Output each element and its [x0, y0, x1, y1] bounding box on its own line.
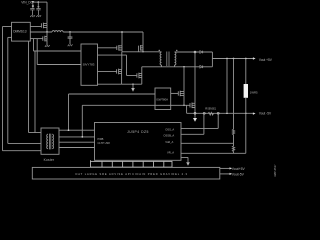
- wire -5V rail: [187, 112, 253, 114]
- wire sense tap vertical: [34, 51, 36, 133]
- wire U2 ground pin: [98, 83, 122, 85]
- wire bridge left leg to primary: [122, 51, 162, 53]
- terminal strip below U4: [91, 160, 173, 167]
- wire left bus 1 to T2: [3, 150, 42, 152]
- junction switch node: [46, 31, 48, 33]
- wire U2 pin2 to QD gate: [98, 55, 137, 75]
- wire VIN horizontal: [34, 1, 48, 3]
- wire T2 to U4 pin3: [59, 141, 95, 143]
- phase dot primary: [159, 50, 160, 51]
- label out plus: [232, 167, 246, 171]
- label T2 Koster: [44, 158, 55, 162]
- capacitor C1: [30, 9, 34, 16]
- IC U2 SIVY783: [81, 44, 98, 85]
- junction rail1 b: [233, 58, 235, 60]
- node VIN_DC label: [21, 0, 33, 4]
- resistor R divider 2: [232, 146, 234, 152]
- wire T2 to U4 pin1: [59, 129, 95, 131]
- wire U3 pin2 to Q6 gate: [155, 104, 190, 106]
- wire +5V rail: [212, 58, 253, 60]
- junction rail2 b: [226, 112, 228, 114]
- ground C1: [30, 15, 35, 17]
- wire QC drain up: [121, 52, 123, 70]
- wire left bus 2 vertical: [7, 37, 9, 143]
- wire load branch lower: [245, 98, 247, 154]
- wire rail2 gnd stub: [194, 114, 196, 118]
- label -5V: [259, 112, 272, 116]
- wire bus center stub: [132, 84, 134, 88]
- arrow -5V: [253, 113, 256, 115]
- ground C2: [36, 15, 41, 17]
- svg-text:Vout +5V: Vout +5V: [259, 58, 273, 62]
- transformer T2 core: [50, 134, 51, 150]
- transformer T1 core: [167, 52, 169, 67]
- phase dot secondary: [176, 50, 177, 51]
- resistor R divider 1: [232, 129, 234, 135]
- wire gnd net U2 to U3 pin1: [69, 93, 156, 95]
- junction rail2 d: [203, 112, 205, 114]
- wire U3 pin2 vertical: [81, 105, 83, 137]
- svg-text:VIN_DC: VIN_DC: [21, 0, 33, 4]
- label out minus: [232, 173, 245, 177]
- wire pinA vertical: [217, 113, 219, 128]
- transformer T2 module box: [41, 128, 59, 154]
- svg-text:JU5P4 DZ5: JU5P4 DZ5: [127, 130, 149, 134]
- junction rail2 c: [245, 112, 247, 114]
- junction Q5 source: [183, 104, 185, 106]
- label R load: [250, 91, 258, 95]
- wire QA source down: [121, 50, 123, 52]
- wire Q5 drain up: [183, 67, 185, 92]
- wire QB drain up: [142, 32, 144, 46]
- wire U1 to switch node: [30, 31, 52, 33]
- wire gnd net vertical: [68, 94, 70, 130]
- arrow +5V: [253, 57, 256, 59]
- wire secondary bottom: [174, 65, 176, 67]
- power flag VIN_DC: [32, 1, 35, 3]
- wire QD drain up: [141, 67, 143, 74]
- ground arrow rail2: [193, 118, 197, 122]
- wire Q6 drain up: [194, 52, 196, 103]
- transistor QC: [117, 69, 122, 75]
- wire U4 pinC: [181, 142, 234, 144]
- transistor QD: [137, 73, 142, 79]
- wire left bus 1 vertical: [2, 27, 4, 151]
- transformer T2 windings: [47, 134, 48, 148]
- wire VIN vertical to Q1 drain: [46, 2, 48, 23]
- transistor Q2: [43, 36, 47, 42]
- wire QD source down: [141, 77, 143, 84]
- wire U1 pin left1: [3, 26, 12, 28]
- junction C2 branch: [37, 1, 39, 3]
- wire pinB vertical: [203, 113, 205, 134]
- transistor QA: [117, 45, 122, 51]
- wire primary bottom: [161, 65, 163, 67]
- junction ring Q6 drain: [194, 51, 196, 53]
- connector J1 output block: [32, 167, 220, 179]
- ground arrow U4: [186, 162, 190, 166]
- ground C3: [68, 44, 73, 46]
- junction bus center: [132, 83, 134, 85]
- diode D2: [200, 66, 203, 69]
- wire left bus 2 to T2: [8, 142, 41, 144]
- wire C1 branch: [32, 3, 34, 8]
- junction C3: [69, 31, 71, 33]
- junction T2 pin1: [68, 129, 70, 131]
- wire J1 out minus: [220, 173, 230, 175]
- wire Q6 source down: [194, 108, 196, 114]
- ground arrow bridge: [131, 88, 135, 92]
- wire tap to U2 pin1: [34, 39, 82, 51]
- inductor L1: [52, 31, 63, 32]
- wire T2 to U4 pin4: [59, 147, 95, 149]
- wire U3 to Q5 gate: [171, 92, 179, 94]
- wire U1 to Q2 gate: [30, 38, 43, 40]
- junction rail1 a: [226, 58, 228, 60]
- wire J1 out plus: [220, 167, 230, 169]
- svg-text:Vout -5V: Vout -5V: [259, 112, 272, 116]
- arrow out plus: [230, 167, 233, 169]
- wire U4 gnd pin: [181, 157, 188, 162]
- wire filter cap branch: [226, 59, 228, 114]
- wire QC source down: [121, 73, 123, 84]
- wire U4 pinA: [181, 127, 218, 129]
- wire bridge bottom bus: [122, 83, 142, 85]
- transistor Q6: [190, 103, 195, 109]
- junction rail1 c: [245, 58, 247, 60]
- wire gate return branch: [186, 105, 188, 113]
- svg-text:Vout+5V: Vout+5V: [232, 167, 246, 171]
- svg-text:SIVY783: SIVY783: [83, 62, 95, 66]
- wire QA drain up: [121, 32, 123, 46]
- wire Q2 drain to node: [46, 32, 48, 37]
- wire QB source down: [142, 50, 144, 52]
- wire divider branch upper: [233, 59, 235, 130]
- transformer T1 primary: [160, 52, 161, 65]
- wire U1 pin left2: [8, 36, 12, 38]
- wire divider mid: [233, 135, 235, 146]
- wire VDD rail: [63, 31, 143, 33]
- wire U1 bottom pin vertical: [28, 41, 30, 132]
- wire divider bottom: [233, 152, 235, 154]
- resistor R load (white body): [244, 84, 248, 98]
- arrow out minus: [230, 173, 233, 175]
- svg-text:DMMS13: DMMS13: [13, 29, 27, 33]
- label vertical doc number: [273, 164, 277, 177]
- transformer T1 secondary: [175, 52, 176, 65]
- wire bottom pin to T2: [29, 132, 42, 134]
- wire U3 pin2 long: [82, 104, 155, 106]
- svg-text:Vout-5V: Vout-5V: [232, 173, 245, 177]
- wire U1 to Q1 gate: [30, 26, 41, 28]
- junction QB source: [142, 51, 143, 52]
- IC U4 controller: [95, 123, 182, 161]
- wire tap to U2 pin2: [37, 39, 81, 65]
- junction T2 pin2: [81, 136, 83, 138]
- transistor QB: [139, 45, 143, 52]
- wire U2 to QC gate: [98, 70, 117, 72]
- wire bottom net: [142, 66, 200, 68]
- transistor Q1: [41, 23, 47, 29]
- junction QA drain: [121, 31, 123, 33]
- junction rail2 a: [217, 112, 219, 114]
- diode D1: [200, 51, 203, 54]
- wire Q2 source to ground: [46, 41, 48, 45]
- wire U4 pinD: [181, 152, 246, 154]
- wire T2 to U4 pin2: [59, 136, 95, 138]
- junction ring rail2 q6: [194, 112, 196, 114]
- wire C2 branch: [37, 2, 39, 8]
- wire U4 pinB: [181, 133, 204, 135]
- wire load branch upper: [245, 59, 247, 85]
- wire D1 out: [203, 52, 213, 59]
- wire U2 to QA gate: [98, 47, 117, 49]
- capacitor C2: [36, 9, 40, 16]
- svg-text:ISW780A: ISW780A: [156, 97, 168, 101]
- label +5V: [259, 58, 273, 62]
- polarity mark C1: [32, 6, 34, 7]
- junction Q5 drain: [183, 66, 185, 68]
- IC U3 ISW780A: [155, 88, 171, 110]
- resistor R sense: [208, 112, 213, 115]
- ground Q2: [45, 45, 50, 47]
- transistor Q5: [178, 91, 184, 97]
- polarity mark C2: [38, 6, 40, 7]
- label sense resistor: [205, 107, 217, 111]
- capacitor C3: [68, 32, 73, 44]
- wire D2 out: [203, 59, 213, 67]
- wire Q1 source to node: [46, 28, 48, 32]
- IC U1 DMMS13: [12, 22, 31, 41]
- svg-text:Koster: Koster: [44, 158, 55, 162]
- wire secondary top: [175, 51, 200, 53]
- svg-text:1WR5: 1WR5: [250, 91, 258, 95]
- wire Q5 source down: [183, 96, 185, 106]
